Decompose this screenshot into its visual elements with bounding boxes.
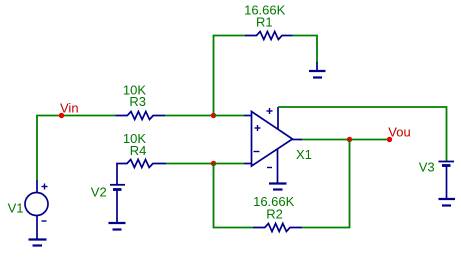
wire bbox=[293, 36, 318, 64]
wire bbox=[214, 163, 245, 165]
node junction bbox=[211, 161, 216, 166]
wire bbox=[214, 36, 246, 116]
svg-text:R4: R4 bbox=[130, 143, 147, 158]
ground bbox=[439, 199, 456, 206]
voltage source V1 bbox=[25, 180, 48, 240]
node Vou bbox=[387, 137, 392, 142]
wire bbox=[37, 116, 116, 181]
ground bbox=[109, 223, 126, 230]
ground bbox=[309, 62, 326, 78]
op-amp X1 bbox=[244, 107, 302, 184]
wire bbox=[302, 140, 350, 228]
svg-text:R1: R1 bbox=[256, 14, 273, 29]
ground bbox=[29, 240, 47, 246]
resistor R2 bbox=[253, 224, 302, 232]
wire bbox=[302, 139, 390, 141]
svg-text:R3: R3 bbox=[129, 94, 146, 109]
svg-text:X1: X1 bbox=[296, 147, 312, 162]
node Vin bbox=[59, 113, 64, 118]
wire bbox=[214, 164, 254, 228]
wire bbox=[165, 115, 214, 117]
wire bbox=[214, 115, 245, 117]
svg-text:Vin: Vin bbox=[60, 101, 79, 116]
svg-text:V2: V2 bbox=[91, 184, 107, 199]
svg-text:V3: V3 bbox=[419, 159, 435, 174]
svg-text:Vou: Vou bbox=[388, 125, 410, 140]
wire bbox=[166, 163, 214, 165]
wire bbox=[278, 107, 447, 162]
battery V3 bbox=[439, 162, 455, 200]
battery V2 bbox=[110, 185, 125, 223]
node junction bbox=[211, 113, 216, 118]
resistor R3 bbox=[116, 112, 165, 120]
svg-text:R2: R2 bbox=[266, 207, 283, 222]
node junction bbox=[347, 137, 352, 142]
ground bbox=[269, 184, 287, 190]
resistor R4 bbox=[117, 160, 166, 185]
svg-text:V1: V1 bbox=[8, 200, 24, 215]
resistor R1 bbox=[245, 32, 293, 40]
